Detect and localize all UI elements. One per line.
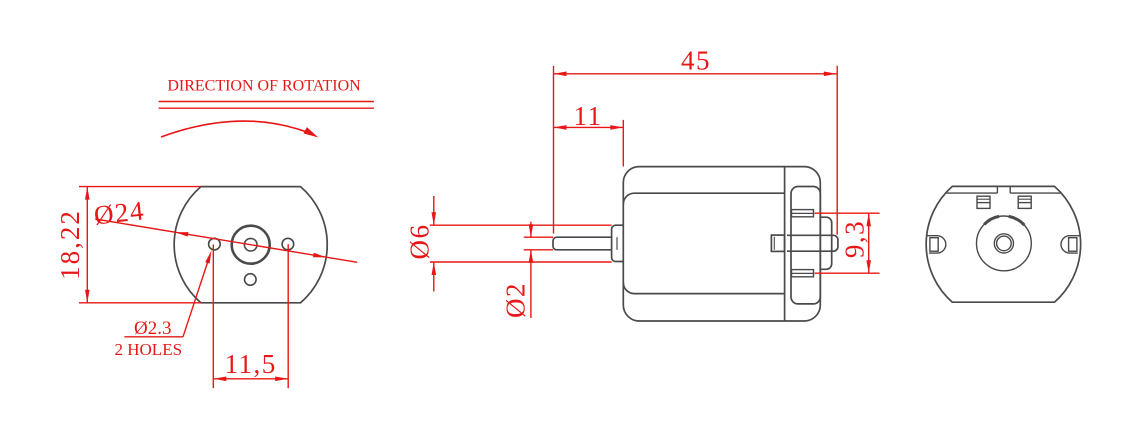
svg-text:Ø2: Ø2 bbox=[501, 282, 531, 318]
svg-text:11,5: 11,5 bbox=[225, 349, 277, 379]
svg-text:Ø2.3: Ø2.3 bbox=[134, 318, 171, 339]
svg-text:45: 45 bbox=[681, 46, 711, 76]
svg-text:2 HOLES: 2 HOLES bbox=[115, 340, 183, 359]
svg-text:9,3: 9,3 bbox=[840, 220, 870, 258]
svg-text:Ø24: Ø24 bbox=[92, 195, 146, 230]
svg-text:Ø6: Ø6 bbox=[405, 224, 435, 260]
svg-text:DIRECTION OF ROTATION: DIRECTION OF ROTATION bbox=[167, 78, 361, 95]
svg-text:18,22: 18,22 bbox=[55, 209, 85, 280]
svg-text:11: 11 bbox=[574, 101, 603, 131]
